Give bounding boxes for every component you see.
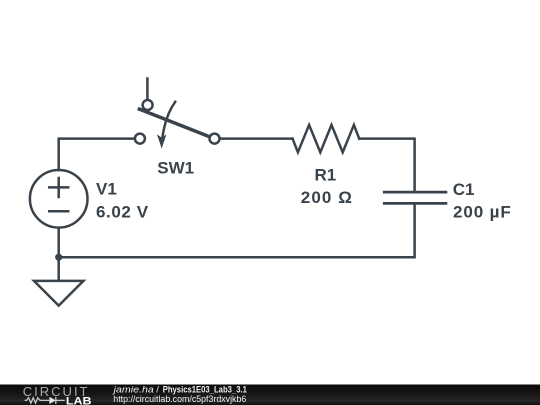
- wire V1 bottom to ground: [57, 228, 60, 280]
- switch SW1 terminals: [135, 100, 220, 144]
- voltage source V1: [30, 170, 88, 228]
- svg-text:200 Ω: 200 Ω: [301, 188, 353, 207]
- CircuitLab logo zigzag + diode: [25, 397, 65, 404]
- switch SW1 arc arrow: [162, 102, 175, 139]
- wire resistor to right corner, down to capacitor: [359, 139, 414, 191]
- wire switch right terminal to resistor: [220, 137, 293, 140]
- wire capacitor to bottom, across to V1: [59, 205, 415, 258]
- svg-text:6.02 V: 6.02 V: [96, 203, 149, 222]
- CircuitLab logo diode triangle: [49, 397, 55, 404]
- junction node at V1 bottom: [55, 254, 62, 261]
- resistor R1: [293, 125, 360, 152]
- ground: [34, 281, 83, 306]
- switch SW1 arrowhead: [157, 134, 167, 148]
- svg-text:R1: R1: [315, 166, 337, 185]
- wire V1 top to corner: [59, 139, 135, 170]
- footer credit line: [111, 385, 247, 405]
- labels: [96, 159, 512, 222]
- svg-text:SW1: SW1: [157, 159, 194, 178]
- capacitor C1: [384, 192, 446, 203]
- svg-text:LAB: LAB: [66, 395, 92, 405]
- svg-text:C1: C1: [453, 180, 475, 199]
- svg-text:200 µF: 200 µF: [453, 203, 512, 222]
- switch SW1 lever: [139, 109, 209, 137]
- svg-text:http://circuitlab.com/c5pf3rdx: http://circuitlab.com/c5pf3rdxvjkb6: [113, 394, 246, 405]
- switch SW1 top stub wire: [146, 79, 149, 100]
- svg-text:V1: V1: [96, 180, 117, 199]
